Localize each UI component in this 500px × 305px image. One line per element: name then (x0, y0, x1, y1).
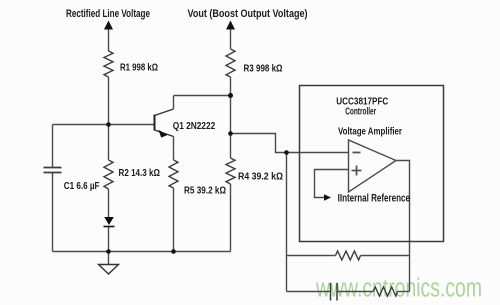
wire Vout arrow to R3 (230, 30, 232, 50)
transistor Q1 base bar (154, 115, 156, 131)
op-amp minus sign (353, 152, 361, 154)
wire feedback left vertical (286, 153, 288, 292)
svg-text:Voltage Amplifier: Voltage Amplifier (338, 127, 402, 138)
svg-text:IInternal Reference: IInternal Reference (338, 193, 410, 205)
svg-text:R2 14.3 kΩ: R2 14.3 kΩ (119, 167, 161, 179)
node dot base (106, 122, 111, 127)
wire R3 bottom through nodes to R4 top (230, 77, 232, 158)
wire upper feedback left lead (287, 255, 336, 257)
svg-text:R5 39.2 kΩ: R5 39.2 kΩ (184, 185, 226, 197)
wire collector vertical (173, 96, 175, 110)
op-amp plus sign (352, 166, 362, 176)
svg-text:Vout (Boost Output Voltage): Vout (Boost Output Voltage) (188, 8, 308, 20)
wire emitter vertical to R5 (173, 137, 175, 161)
svg-text:Q1 2N2222: Q1 2N2222 (173, 120, 216, 132)
internal reference arrowhead (324, 194, 331, 200)
resistor R2 14.3k zigzag (104, 160, 113, 189)
node dot bottom R5 (171, 249, 176, 254)
node dot inverting input (284, 150, 289, 155)
wire R1 bottom to R2 top (108, 77, 110, 160)
resistor R3 998k zigzag (226, 49, 235, 77)
wire C1 branch lower (52, 173, 54, 252)
transistor Q1 emitter arrowhead (159, 130, 168, 138)
node dot bottom left (106, 249, 111, 254)
svg-text:www.cntronics.com: www.cntronics.com (315, 275, 482, 303)
wire diode to bottom rail (108, 227, 110, 252)
feedback capacitor plates (331, 283, 338, 301)
node dot divider (228, 131, 233, 136)
UCC3817PFC controller box (300, 86, 444, 242)
wire collector horizontal (174, 95, 231, 97)
input arrow rectified line (104, 21, 113, 30)
wire R5 bottom to bottom rail (173, 188, 175, 252)
wire R4 bottom to bottom rail (230, 184, 232, 252)
resistor R1 998k zigzag (104, 51, 113, 77)
svg-text:C1 6.6 µF: C1 6.6 µF (64, 180, 100, 192)
wire divider node to amplifier input (231, 134, 349, 153)
svg-text:R4 39.2 kΩ: R4 39.2 kΩ (238, 171, 283, 183)
diode D1 cathode bar (104, 226, 115, 228)
input arrow vout (226, 21, 235, 30)
wire lower feedback mid lead (337, 291, 373, 293)
diode D1 triangle (104, 217, 114, 225)
capacitor C1 plates (44, 168, 62, 173)
wire ground stem (108, 252, 110, 265)
transistor Q1 emitter diagonal (155, 130, 174, 137)
wire C1 top and Q1 base (53, 124, 155, 126)
resistor R4 39.2k zigzag (226, 158, 235, 184)
wire lower feedback left lead (287, 291, 331, 293)
wire op-amp output down (396, 161, 410, 292)
wire lower feedback right lead (398, 291, 410, 293)
wire C1 branch upper (52, 125, 54, 168)
op-amp U1 voltage amplifier triangle (349, 140, 397, 192)
feedback resistor lower zigzag (373, 287, 398, 296)
wire R2 bottom to diode (108, 189, 110, 217)
ground (99, 265, 119, 275)
wire upper feedback right lead (361, 255, 410, 257)
transistor Q1 collector diagonal (155, 109, 174, 116)
wire internal reference loop (315, 170, 349, 198)
feedback resistor upper zigzag (336, 251, 361, 260)
svg-text:Controller: Controller (345, 107, 376, 118)
node dot collector (228, 93, 233, 98)
svg-text:Rectified Line Voltage: Rectified Line Voltage (66, 8, 150, 20)
wire bottom rail (53, 251, 231, 253)
svg-text:R1 998 kΩ: R1 998 kΩ (120, 62, 158, 74)
wire rectified line arrow to R1 (108, 30, 110, 52)
svg-text:R3 998 kΩ: R3 998 kΩ (244, 63, 283, 75)
resistor R5 39.2k zigzag (169, 160, 178, 188)
